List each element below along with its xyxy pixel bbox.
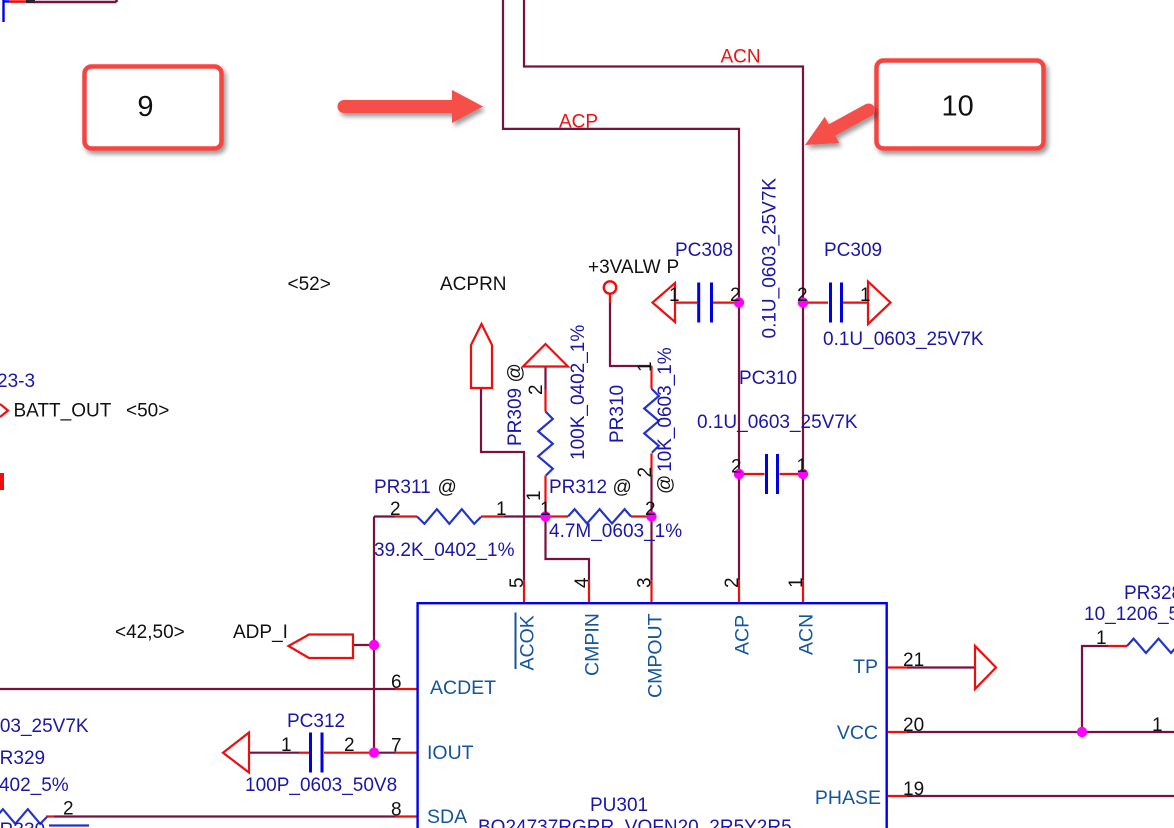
wire: PHASE pin 19 net <box>907 795 1174 797</box>
svg-text:@: @ <box>438 477 457 498</box>
svg-text:2: 2 <box>722 577 743 588</box>
svg-text:1: 1 <box>860 285 871 306</box>
pin stub: IC pin 19 <box>888 795 907 797</box>
pin stub: PC309 pin 1 <box>843 302 868 304</box>
svg-text:10: 10 <box>942 91 974 123</box>
svg-text:PC312: PC312 <box>287 711 345 732</box>
connector ACPRN pentagon <box>471 324 492 388</box>
wire: top-left red segment <box>9 0 28 3</box>
resistor PR312 4.7M_0603_1% <box>568 509 631 523</box>
svg-text:2: 2 <box>526 384 547 395</box>
svg-text:CMPIN: CMPIN <box>582 613 604 676</box>
svg-text:39.2K_0402_1%: 39.2K_0402_1% <box>374 540 515 561</box>
svg-text:PR312: PR312 <box>549 477 607 498</box>
pin stub: IC pin 6 <box>395 688 418 690</box>
svg-text:0.1U_0603_25V7K: 0.1U_0603_25V7K <box>760 178 781 339</box>
svg-text:2: 2 <box>797 285 808 306</box>
svg-text:CMPOUT: CMPOUT <box>645 613 667 698</box>
pin stub: IC pin 2 <box>738 580 740 602</box>
pin stub: IC pin 3 <box>650 580 652 602</box>
pin stub: PR309 pin 1 <box>544 476 546 504</box>
resistor PR330 (cut at left edge) <box>0 809 47 824</box>
connector ADP_I tag <box>289 635 354 659</box>
svg-text:100P_0603_50V8: 100P_0603_50V8 <box>245 775 397 796</box>
svg-text:5: 5 <box>507 577 528 588</box>
svg-text:ACN: ACN <box>721 47 761 68</box>
pin stub: +3VALWP circle lead <box>609 293 611 303</box>
pin stub: PC308 pin 1 <box>675 302 697 304</box>
wire: VCC pin 20 net <box>907 731 1174 733</box>
pin stub: IC pin 4 <box>588 580 590 602</box>
pin stub: PC309 pin 2 <box>803 302 828 304</box>
svg-text:19: 19 <box>903 779 924 800</box>
svg-text:PR310: PR310 <box>607 385 628 443</box>
svg-text:1: 1 <box>1152 715 1163 736</box>
svg-text:1: 1 <box>524 490 545 501</box>
svg-text:21: 21 <box>903 650 924 671</box>
resistor PR309 100K_0402_1% <box>538 412 553 476</box>
pin stub: PC308 pin 2 <box>713 302 739 304</box>
svg-text:+3VALW: +3VALW <box>588 257 661 278</box>
svg-text:9: 9 <box>137 91 153 123</box>
callout box 10 <box>877 61 1044 149</box>
pin stub: IC pin 1 <box>802 580 804 602</box>
svg-text:@: @ <box>613 477 632 498</box>
svg-text:2: 2 <box>63 799 74 820</box>
svg-text:4: 4 <box>572 577 593 588</box>
svg-text:1: 1 <box>1096 628 1107 649</box>
wire: top-left maroon segment <box>34 0 117 2</box>
wire: VCC node to PR328 pin 1 <box>1082 646 1108 732</box>
svg-text:<42,50>: <42,50> <box>115 622 185 643</box>
svg-text:PC308: PC308 <box>675 240 733 261</box>
power triangle above PR309 <box>523 344 568 367</box>
capacitor PC309 plates <box>831 283 842 323</box>
pin stub: PC310 pin 2 <box>739 473 765 475</box>
wire: PR311 pin 2 horizontal lead <box>374 515 395 517</box>
ground triangle at PC309 pin 1 <box>868 282 891 325</box>
capacitor PC312 plates <box>311 733 323 773</box>
svg-text:TP: TP <box>853 656 878 678</box>
wire: node J1 to IC pin 4 <box>546 517 590 581</box>
resistor PR328 10_1206 (cut at right edge) <box>1127 639 1174 653</box>
wire: ADP_I connector to node <box>353 644 374 646</box>
svg-text:1: 1 <box>635 361 656 372</box>
svg-text:1: 1 <box>797 456 808 477</box>
pin stub: IC pin 7 <box>395 752 418 754</box>
svg-text:<52>: <52> <box>288 274 331 295</box>
svg-text:PR329: PR329 <box>0 748 45 769</box>
svg-text:0.1U_0603_25V7K: 0.1U_0603_25V7K <box>0 716 89 737</box>
svg-text:1: 1 <box>669 285 680 306</box>
svg-text:<50>: <50> <box>126 401 169 422</box>
pin stub: PR309 pin 2 <box>544 390 546 412</box>
svg-text:BATT_OUT: BATT_OUT <box>14 401 112 422</box>
pin stub: PC312 pin 2 <box>324 752 371 754</box>
svg-text:1: 1 <box>786 577 807 588</box>
svg-text:0.1U_0603_25V7K: 0.1U_0603_25V7K <box>823 329 984 350</box>
resistor PR310 10K_0603_1% <box>644 389 659 453</box>
svg-text:100K_0402_1%: 100K_0402_1% <box>568 325 589 460</box>
svg-text:PC309: PC309 <box>824 240 882 261</box>
svg-text:VCC: VCC <box>837 722 878 744</box>
svg-text:10K_0402_5%: 10K_0402_5% <box>0 775 69 796</box>
wire: PR309 pin 2 from triangle <box>544 366 546 390</box>
svg-text:ACP: ACP <box>732 615 754 655</box>
wire: ACDET pin 6 net <box>0 688 395 690</box>
svg-text:1: 1 <box>496 499 507 520</box>
svg-text:ACDET: ACDET <box>430 677 496 699</box>
svg-text:PU301: PU301 <box>590 795 648 816</box>
ground triangle at PC312 pin 1 <box>223 733 249 773</box>
wire: blue fragment at bottom left <box>49 824 89 826</box>
callout arrow 9 <box>344 90 483 123</box>
svg-text:2: 2 <box>645 499 656 520</box>
pin stub: PR312 pin 2 <box>631 515 652 517</box>
ground triangle at PC308 pin 1 <box>653 283 676 322</box>
svg-text:PC310: PC310 <box>739 368 797 389</box>
node: junction dots <box>369 297 1087 758</box>
wire: node J2 to IC pin 3 <box>650 517 652 581</box>
svg-text:@: @ <box>655 475 676 494</box>
capacitor PC308 plates <box>699 283 712 323</box>
svg-text:23-3: 23-3 <box>0 371 35 392</box>
connector red bar at left edge <box>0 473 4 490</box>
pin stub: IC pin 21 <box>888 666 907 668</box>
svg-text:IOUT: IOUT <box>427 742 474 764</box>
svg-text:7: 7 <box>391 736 402 757</box>
wire: PR311 pin 2 riser to IOUT node <box>373 517 375 753</box>
svg-text:ACPRN: ACPRN <box>440 274 507 295</box>
svg-text:PHASE: PHASE <box>815 787 881 809</box>
wire: PR309 pin 1 to node J1 <box>544 503 546 517</box>
svg-text:1: 1 <box>540 499 551 520</box>
svg-text:6: 6 <box>391 672 402 693</box>
pin stub: PC312 pin 1 <box>299 752 309 754</box>
svg-text:8: 8 <box>391 800 402 821</box>
power circle +3VALWP <box>604 281 616 293</box>
pin stub: PR312 pin 1 <box>546 515 569 517</box>
wire: ACPRN connector to IC pin 5 <box>481 388 524 580</box>
svg-text:2: 2 <box>731 457 742 478</box>
svg-text:PR328: PR328 <box>1124 583 1174 604</box>
resistor PR311 39.2K_0402_1% <box>417 509 481 524</box>
svg-text:4.7M_0603_1%: 4.7M_0603_1% <box>549 521 682 542</box>
svg-text:2: 2 <box>635 467 656 478</box>
svg-text:20: 20 <box>903 715 924 736</box>
pin stub: IC pin 8 <box>395 815 418 817</box>
svg-text:ACP: ACP <box>559 112 598 133</box>
svg-text:ADP_I: ADP_I <box>233 622 288 643</box>
pin stub: PC310 pin 1 <box>780 473 804 475</box>
pin stub: PR310 pin 1 <box>650 366 652 389</box>
pin stub: IC pin 20 <box>888 731 907 733</box>
pin stub: PR328 pin 1 <box>1108 645 1127 647</box>
svg-text:ACN: ACN <box>796 614 818 655</box>
wire: SDA pin 8 net <box>54 815 395 817</box>
wire: PR311 pin 1 to node J1 <box>504 515 546 517</box>
svg-text:ACOK: ACOK <box>517 615 539 670</box>
IC PU301 body <box>418 603 887 828</box>
svg-text:PR311: PR311 <box>374 477 431 498</box>
svg-text:BQ24737RGRR_VQFN20_2R5Y2R5: BQ24737RGRR_VQFN20_2R5Y2R5 <box>478 817 792 828</box>
svg-text:PR330: PR330 <box>0 820 45 828</box>
node: top-left dark block <box>26 0 35 3</box>
pin ACOK overline <box>515 613 517 670</box>
wire: +3VALWP to PR310 pin 1 <box>610 294 652 366</box>
pin stub: PR330 pin 2 <box>46 815 54 817</box>
svg-text:3: 3 <box>635 577 656 588</box>
wire: PC312 pin 1 to ground triangle <box>249 752 299 754</box>
capacitor PC310 plates <box>767 454 778 494</box>
connector triangle at TP pin 21 <box>975 646 996 689</box>
pin stub: PR310 pin 2 <box>650 453 652 475</box>
pin stub: PR311 pin 1 <box>481 515 504 517</box>
callout arrow 10 <box>805 110 869 145</box>
pin stub: IC pin 5 <box>523 580 525 602</box>
svg-text:0.1U_0603_25V7K: 0.1U_0603_25V7K <box>697 412 858 433</box>
svg-text:10_1206_5%: 10_1206_5% <box>1084 604 1174 625</box>
svg-text:PR309: PR309 <box>505 388 526 446</box>
svg-text:2: 2 <box>730 285 741 306</box>
pin stub: PR311 pin 2 <box>395 515 418 517</box>
wire: PR310 pin 2 to node J2 <box>650 475 652 517</box>
svg-text:SDA: SDA <box>427 806 467 828</box>
svg-text:2: 2 <box>344 735 355 756</box>
svg-text:10K_0603_1%: 10K_0603_1% <box>655 347 676 472</box>
wire: TP pin 21 to connector <box>907 666 975 668</box>
wire: red pin stubs group <box>46 293 1127 817</box>
wire: top-left blue fragment <box>4 0 10 22</box>
wire: net ACP from top to IC pin 2 <box>503 0 739 580</box>
svg-text:2: 2 <box>390 499 401 520</box>
svg-text:1: 1 <box>281 735 292 756</box>
callout box 9 <box>85 67 222 149</box>
wire: net ACN from top to IC pin 1 <box>524 0 803 580</box>
svg-text:@: @ <box>505 363 526 382</box>
connector arrowhead at left edge BATT_OUT <box>0 404 8 417</box>
wire: IOUT node to pin 7 stub <box>374 752 395 754</box>
